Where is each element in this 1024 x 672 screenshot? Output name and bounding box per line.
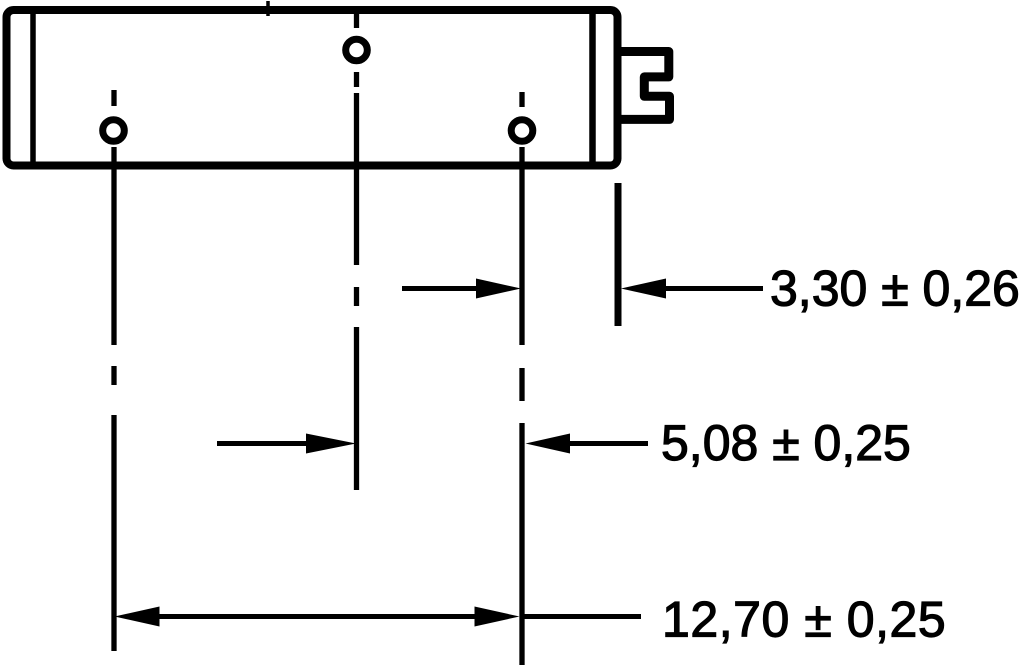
left end-cap line <box>30 11 36 164</box>
top tick mark <box>266 1 270 16</box>
center line right <box>519 92 524 665</box>
extension line of body right edge <box>615 183 622 326</box>
center line left <box>111 90 116 651</box>
hole middle <box>346 39 368 61</box>
dimension row 1 right arrow <box>621 279 763 299</box>
dimension row 3 leader stub <box>524 614 641 619</box>
svg-text:3,30 ± 0,26: 3,30 ± 0,26 <box>770 261 1020 317</box>
dimension row 3 double arrow <box>115 607 520 627</box>
component body outline <box>7 10 618 166</box>
dimension row 2 left arrow <box>217 434 356 454</box>
svg-text:5,08 ± 0,25: 5,08 ± 0,25 <box>661 415 911 471</box>
right end-cap line <box>589 11 596 164</box>
dimension row 1 left arrow <box>402 279 521 299</box>
svg-text:12,70 ± 0,25: 12,70 ± 0,25 <box>662 592 946 648</box>
hole right <box>511 120 533 142</box>
dimension row 2 right arrow <box>526 434 649 454</box>
hole left <box>103 120 125 142</box>
center line middle <box>354 14 359 490</box>
adjustment tab on right side <box>618 52 670 120</box>
